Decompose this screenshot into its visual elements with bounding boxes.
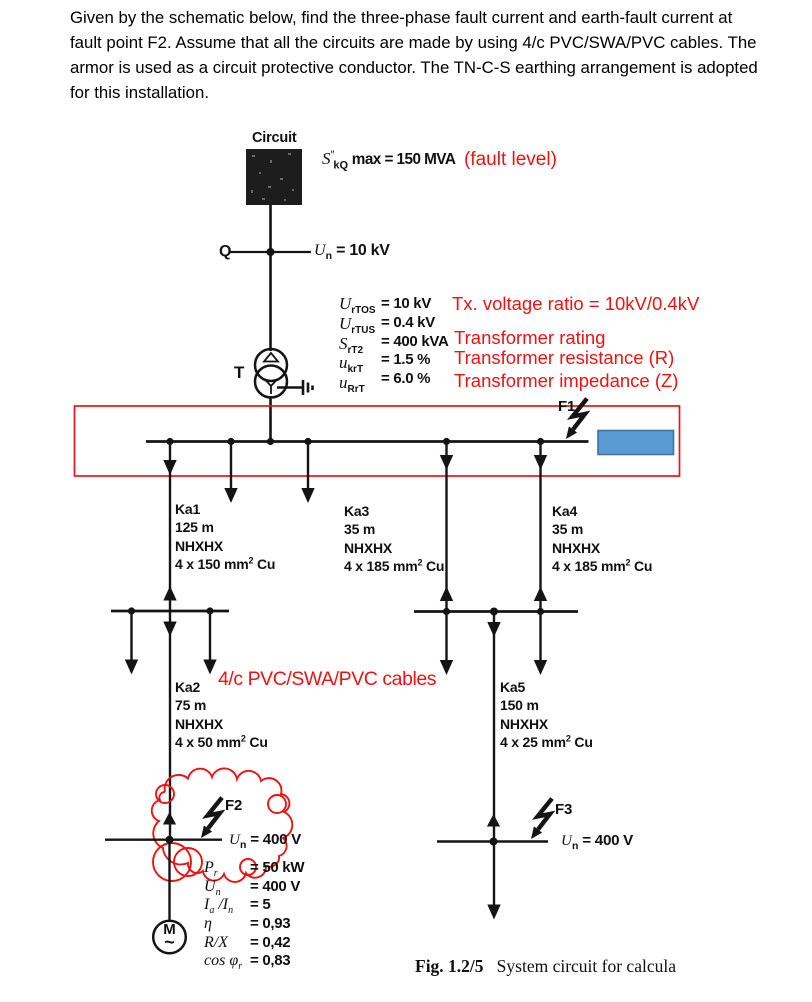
label transformer T [234, 364, 244, 382]
cable Ka4 label block [552, 502, 652, 575]
left sub busbar dots [128, 607, 214, 614]
blue annotation box [598, 431, 674, 455]
red annotation cables [218, 668, 436, 691]
transformer T secondary winding circle [255, 366, 287, 398]
feeder Ka5 tail at F3 [493, 842, 495, 906]
motor M circle [153, 921, 186, 954]
left sub busbar [111, 610, 229, 613]
label Un 10 kV [314, 242, 390, 260]
annotation fault level [464, 149, 557, 171]
annotation transformer rating [454, 327, 605, 349]
annotation Tx voltage ratio [452, 293, 699, 315]
label short-circuit power [322, 149, 455, 169]
right sub busbar [414, 610, 578, 613]
red highlight rectangle around busbar [75, 406, 680, 476]
earth symbol bars [303, 380, 313, 395]
right sub busbar dots [443, 608, 544, 616]
wire source to node Q [269, 205, 272, 252]
label Un 400 V at F2 [229, 831, 301, 849]
label Circuit [252, 129, 297, 147]
left stub load arrow at x131 [125, 611, 138, 675]
label F1 [558, 398, 575, 416]
Ka3 arriving arrow [440, 587, 453, 602]
label F2 [225, 797, 242, 815]
feeder Ka3 wire [445, 442, 447, 612]
F3 outgoing arrow [487, 905, 500, 920]
fault F3 bolt [531, 799, 552, 840]
feeder stub arrow at x231 [224, 442, 237, 504]
fault F2 red cloud [152, 768, 293, 882]
wire node Q stub [229, 251, 311, 253]
fault F2 bolt [201, 798, 222, 839]
Ka5 arriving arrow at F3 [487, 814, 500, 827]
right stub load arrow at x540 [534, 612, 547, 676]
cable Ka3 label block [344, 502, 444, 575]
fault F1 bolt [566, 399, 587, 440]
wire F2 to motor [168, 840, 170, 921]
annotation transformer resistance [454, 347, 674, 369]
motor M letter [161, 923, 178, 950]
label F3 [555, 801, 572, 819]
annotation transformer impedance [454, 370, 678, 392]
earthing branch wire [277, 386, 302, 388]
feeder stub arrow at x308 [301, 442, 314, 504]
Ka2 arriving arrow at F2 [163, 812, 176, 825]
F3 junction dot [490, 838, 498, 846]
feeder Ka5 wire [493, 612, 495, 842]
transformer parameter rows [339, 295, 376, 394]
Ka4 arriving arrow [534, 587, 547, 602]
Ka3 outgoing arrow [440, 455, 453, 470]
F3 node horizontal wire [437, 840, 548, 842]
F2 node horizontal wire [105, 839, 222, 841]
motor parameter symbols [204, 859, 242, 971]
left stub load arrow at x210 [203, 611, 216, 675]
label node Q [219, 243, 231, 261]
main LV busbar [146, 440, 589, 443]
label Un 400 V at F3 [561, 832, 633, 850]
Ka1 arriving arrow [163, 586, 176, 601]
transformer parameter values [381, 295, 449, 389]
F2 junction dot [166, 836, 174, 844]
Ka2 outgoing arrow [163, 622, 176, 637]
paragraph: problem statement [70, 6, 758, 106]
Ka5 outgoing arrow [487, 622, 500, 637]
figure caption [415, 956, 676, 977]
wire Q to transformer T [269, 252, 272, 351]
right stub load arrow at x446 [440, 612, 453, 676]
cable Ka1 label block [175, 500, 275, 573]
wye symbol in secondary [265, 380, 277, 395]
delta symbol in primary [264, 353, 278, 362]
transformer T primary winding circle [255, 349, 287, 381]
cable Ka5 label block [500, 678, 593, 751]
feeder Ka4 wire [539, 442, 541, 612]
Ka1 outgoing arrow [163, 460, 176, 475]
node Q junction dot [267, 248, 275, 256]
busbar junction dots [166, 438, 544, 445]
source block (network feed) [246, 149, 302, 205]
Ka4 outgoing arrow [534, 455, 547, 470]
feeder Ka1 wire [169, 442, 171, 840]
cable Ka2 label block [175, 678, 268, 751]
motor parameter values [250, 859, 304, 971]
red scribble circles at F2 tap [153, 843, 202, 881]
wire transformer to LV busbar [269, 396, 272, 442]
